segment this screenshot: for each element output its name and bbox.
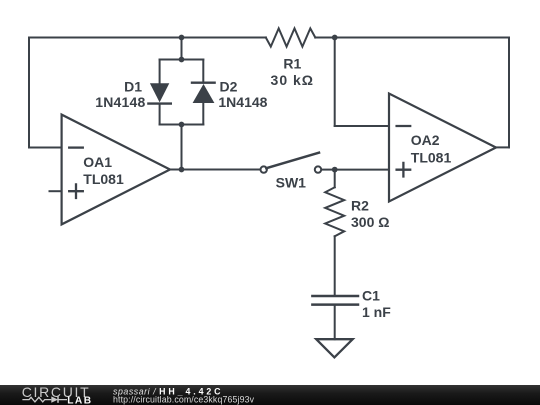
switch SW1 throw terminal [315,166,321,172]
wire OA2 inverting input [335,125,389,127]
wire top node down to OA2 inverting input [334,38,336,127]
svg-text:OA1: OA1 [83,154,112,170]
diode D1 (1N4148) [150,83,169,102]
resistor R2 [325,187,344,236]
wire diode branch bottom stub [181,125,183,170]
op-amp OA2 minus pin mark [397,125,411,127]
wire right vertical feedback [508,38,510,148]
wire C1 to ground [334,305,336,340]
switch SW1 lever [266,153,319,169]
svg-text:LAB: LAB [67,395,92,405]
svg-text:1 nF: 1 nF [362,304,391,320]
svg-text:R2: R2 [351,198,369,214]
svg-text:OA2: OA2 [411,132,440,148]
CircuitLab logo circuit squiggle [22,396,67,402]
wire OA1 inverting input [29,147,62,149]
wire OA2 output [496,146,509,148]
svg-text:SW1: SW1 [276,175,307,191]
op-amp OA2 plus pin mark [397,163,411,177]
wire OA1 output to switch [170,169,261,171]
capacitor C1 [312,296,358,305]
svg-text:TL081: TL081 [411,150,452,166]
junction node OA1 output [179,167,185,173]
ground [316,339,353,357]
wire D1 anode lead [159,60,161,84]
junction node top R1 output [332,35,338,41]
op-amp OA2 [389,94,496,202]
svg-text:http://circuitlab.com/ce3kkq76: http://circuitlab.com/ce3kkq765j93v [113,395,255,405]
svg-text:C1: C1 [362,288,380,304]
wire D2 cathode lead [202,60,204,83]
wire switch to node [321,169,335,171]
wire diode branch top stub [181,38,183,60]
op-amp OA1 plus pin mark [69,184,83,198]
svg-text:D1: D1 [124,79,142,95]
wire D2 anode lead [202,103,204,125]
op-amp OA1 [62,115,170,225]
junction node diode bracket top [179,57,185,63]
wire top left segment [29,37,266,39]
resistor R1 [266,28,316,46]
wire OA1 non-inverting input stub [50,190,62,192]
junction node diode bracket bottom [179,122,185,128]
wire node down to R2 [334,170,336,188]
wire diode bracket bottom bar [160,124,204,126]
wire node to OA2 non-inverting input [335,169,389,171]
svg-text:TL081: TL081 [83,171,124,187]
wire top right segment [315,37,509,39]
wire diode bracket top bar [160,59,204,61]
wire D1 cathode lead [159,104,161,125]
svg-text:1N4148: 1N4148 [95,94,145,110]
svg-text:300 Ω: 300 Ω [351,214,389,230]
diode D2 (1N4148) [193,84,215,103]
op-amp OA1 minus pin mark [69,146,83,148]
junction node switch output [332,167,338,173]
svg-text:R1: R1 [283,56,301,72]
wire left vertical feedback [28,38,30,148]
switch SW1 pole terminal [261,166,267,172]
wire R2 to C1 [334,236,336,296]
footer bar [0,385,540,405]
svg-text:30 kΩ: 30 kΩ [271,72,314,88]
svg-text:1N4148: 1N4148 [218,94,267,110]
junction node top-left of diodes [179,35,185,41]
svg-text:D2: D2 [220,79,238,95]
